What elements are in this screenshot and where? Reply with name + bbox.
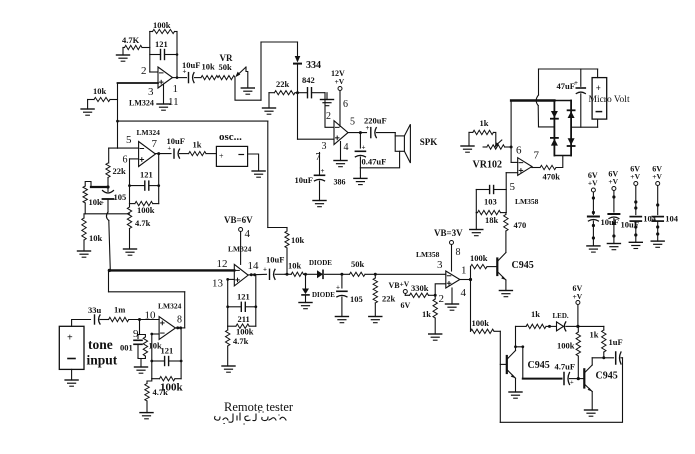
op-amp U1C LM324 [234, 264, 248, 286]
label 100k stage3 [236, 327, 254, 337]
wire pin5 column down [108, 148, 110, 163]
power branch4 6V 104 [651, 165, 679, 248]
label OSC [219, 131, 242, 143]
wire pin2 input [150, 71, 158, 73]
svg-text:LM324: LM324 [137, 128, 161, 137]
label 330k [411, 283, 429, 293]
wire s2 fb right vertical [157, 152, 160, 204]
label 1m [114, 305, 125, 315]
wire node stage1 plus vertical [116, 83, 119, 148]
wire chain b [304, 273, 318, 276]
svg-text:121: 121 [155, 39, 168, 49]
wire pin5 row [109, 147, 139, 149]
label 10uF stage2 [167, 136, 185, 146]
wire nodeB row [85, 213, 129, 215]
capacitor 121 stage1 [150, 50, 177, 60]
label pin13 [212, 278, 224, 290]
label pin8 [177, 315, 182, 326]
label LM358 a [515, 197, 539, 206]
wire flasher loop [500, 358, 622, 423]
capacitor 103 [476, 186, 506, 194]
label 121 stage1 [155, 39, 168, 49]
op-amp U2 386 [334, 121, 348, 145]
diode bridge D4 [568, 138, 575, 146]
capacitor 105 chain [336, 274, 347, 316]
power branch3 6V 104 [629, 165, 656, 249]
capacitor 121 stage3 [226, 302, 257, 311]
resistor 22k 386-input [269, 91, 298, 95]
diode bridge D1 [551, 111, 558, 119]
resistor 470 [504, 213, 508, 231]
wire 105 down with hop [106, 199, 110, 270]
svg-text:1m: 1m [114, 305, 125, 315]
label 12V [331, 69, 345, 78]
svg-text:+: + [336, 284, 340, 292]
svg-text:osc...: osc... [219, 131, 242, 143]
wire s3 fb right vertical [255, 275, 257, 326]
label 47uF [557, 81, 575, 91]
label 10k stage1 ref [93, 86, 107, 96]
wire loop bottom [268, 227, 287, 229]
label pin6 lm358a [516, 145, 522, 157]
label pin10 [145, 310, 157, 322]
svg-text:LM324: LM324 [228, 245, 252, 254]
ground 4.7k u1d [140, 413, 153, 419]
resistor 4.7K stage1 [123, 45, 150, 49]
svg-text:10k: 10k [89, 233, 103, 243]
capacitor 1uF [616, 352, 623, 364]
resistor 100k delay [471, 329, 501, 333]
ground Q1 emitter [499, 291, 512, 297]
wire pin9 row [150, 333, 159, 336]
svg-text:7: 7 [534, 150, 540, 162]
label 1k flasher [590, 330, 599, 340]
wire 470k to bridge [556, 156, 563, 168]
power node 12V [338, 87, 342, 91]
resistor 4.7k stage3 [226, 326, 230, 366]
svg-text:input: input [87, 353, 118, 368]
wire meter top [597, 69, 599, 78]
svg-text:3: 3 [437, 259, 443, 271]
label 100k stage1 [153, 20, 171, 30]
wire 1k gnd lead [468, 132, 470, 146]
diode bridge D3 [551, 138, 558, 146]
svg-text:4: 4 [245, 228, 251, 240]
label LM324 U1A [129, 99, 154, 108]
wire pin6 row [130, 158, 139, 160]
svg-text:VB: VB [389, 281, 401, 290]
svg-text:+: + [100, 199, 104, 207]
label LM324 U1B [137, 128, 161, 137]
label 1uF [609, 337, 623, 347]
wire tone box top [72, 320, 91, 327]
ground pin4 lm358b [446, 288, 459, 310]
svg-text:+V: +V [400, 280, 410, 289]
label 842 [302, 75, 315, 85]
svg-text:4.7k: 4.7k [233, 336, 249, 346]
svg-text:4.7K: 4.7K [122, 35, 140, 45]
svg-text:10k: 10k [93, 86, 107, 96]
ground 10k ref [81, 109, 94, 115]
svg-text:105: 105 [350, 294, 363, 304]
wire pin3 input [118, 82, 159, 84]
label pin7 s2 [152, 138, 158, 150]
label pin6 s2 [123, 155, 128, 166]
node A junction [106, 185, 109, 188]
svg-text:22k: 22k [276, 79, 290, 89]
svg-text:4: 4 [461, 287, 467, 299]
resistor 10k stage1 gnd-ref [88, 97, 118, 101]
svg-text:4.7k: 4.7k [135, 218, 151, 228]
ground pin7 cap [313, 201, 326, 207]
svg-text:22k: 22k [382, 294, 396, 304]
label pin7 lm358a [534, 150, 540, 162]
svg-text:3: 3 [148, 86, 154, 98]
svg-text:50k: 50k [219, 62, 233, 72]
transistor C945 Q3 [584, 365, 592, 410]
wire u1d column up [108, 269, 111, 292]
label 100k stage2 [137, 205, 155, 215]
label 0.47uF [362, 157, 387, 167]
wire lm358b out [460, 278, 472, 281]
resistor 330k [410, 293, 429, 297]
wire vb to 330k [405, 294, 409, 296]
svg-text:+: + [321, 167, 325, 175]
resistor 22k stage2 [106, 163, 110, 187]
label pin2 386 [326, 111, 331, 122]
svg-text:+V: +V [573, 292, 583, 301]
label input [87, 353, 118, 368]
svg-text:SPK: SPK [420, 137, 438, 147]
label 10uF stage1 [182, 60, 200, 70]
resistor 4.7k stage2 [127, 204, 131, 249]
svg-text:VB=6V: VB=6V [224, 215, 253, 225]
wire 6v to led node [576, 305, 579, 329]
label 50k [219, 62, 233, 72]
label 121 stage3 [237, 292, 250, 302]
label pin3 lm358b [437, 259, 443, 271]
svg-text:9: 9 [133, 328, 139, 340]
wire chain c [325, 273, 350, 276]
wire chain d [365, 273, 446, 276]
label 1k meter [480, 118, 489, 128]
wire s2 fb left vertical [129, 159, 131, 204]
svg-text:121: 121 [237, 292, 250, 302]
wire right mid rail [571, 126, 598, 128]
wire thick to bridge [511, 99, 554, 101]
label pin1 lm358b [461, 265, 467, 277]
power branch2 6V 10uF [607, 170, 639, 250]
svg-text:6: 6 [343, 99, 348, 110]
power node VB 6V [403, 290, 407, 294]
resistor 100k stage2 [130, 201, 159, 205]
svg-text:tone: tone [88, 337, 113, 352]
wire VR tap down [235, 78, 261, 100]
label 121 stage2 [140, 170, 153, 180]
label 470 [514, 220, 527, 230]
label SPK [420, 137, 438, 147]
label Micro Volt [589, 95, 630, 105]
svg-text:12: 12 [217, 258, 228, 270]
svg-text:211: 211 [238, 314, 250, 324]
wire stage1 feedback box right vertical [176, 32, 179, 79]
label 334 [306, 60, 321, 71]
label 100k delay [472, 318, 490, 328]
svg-text:10uF: 10uF [182, 60, 200, 70]
label 100k u1d [160, 382, 184, 394]
wire u1d out riser [184, 292, 186, 328]
wire 12V to 386 [339, 91, 341, 127]
speaker SPK [395, 124, 410, 163]
label 10k stage1 out [202, 62, 216, 72]
svg-text:4: 4 [344, 142, 349, 153]
capacitor 105 stage2 [100, 187, 114, 207]
capacitor 121 u1d [150, 357, 182, 366]
label C945 Q3 [596, 371, 618, 382]
ground 0.47uF [354, 178, 367, 184]
svg-text:8: 8 [456, 247, 461, 258]
svg-text:5: 5 [510, 181, 516, 193]
bridge rectangle [554, 101, 571, 156]
svg-text:2: 2 [326, 111, 331, 122]
capacitor 4.7uF [523, 373, 583, 387]
label 10k s2b [89, 233, 103, 243]
label 22k chain [382, 294, 396, 304]
potentiometer VR102 [483, 145, 511, 149]
ground 105 chain [335, 317, 348, 323]
svg-text:1: 1 [461, 265, 467, 277]
svg-text:LM324: LM324 [158, 302, 182, 311]
wire s3 output [248, 273, 266, 276]
resistor 1k stage2 [189, 152, 217, 156]
ground 1k meter [461, 146, 474, 152]
svg-text:1k: 1k [531, 309, 540, 319]
label 121 u1d [161, 346, 174, 356]
svg-text:103: 103 [484, 197, 497, 207]
wire to pin2 lm358b [435, 284, 446, 296]
svg-text:LM324: LM324 [129, 99, 154, 108]
ground 22k 386 [263, 108, 276, 114]
wire out up branch [470, 267, 472, 280]
diode DIODE shunt [302, 289, 309, 295]
ground after 842 [321, 93, 334, 106]
label pin6 386 [343, 99, 348, 110]
label pin4 lm358b [461, 287, 467, 299]
wire jump from top [536, 69, 538, 127]
wire pin6 riser [510, 101, 513, 163]
label 22k 386 [276, 79, 290, 89]
resistor 100k stage1 feedback [150, 29, 177, 33]
wire s3 fb left vertical [227, 279, 229, 326]
label tone [88, 337, 113, 352]
svg-text:3: 3 [322, 141, 327, 152]
label pin2 lm358b [439, 293, 445, 305]
svg-text:1k: 1k [480, 118, 489, 128]
label pin14 [248, 260, 260, 272]
resistor 100k flasher [576, 326, 580, 380]
resistor 4.7k u1d [145, 379, 152, 413]
label 386 [334, 178, 346, 187]
svg-text:33u: 33u [88, 305, 102, 315]
svg-text:330k: 330k [411, 283, 429, 293]
power node 6V flasher [576, 301, 580, 305]
transistor C945 Q1 [497, 231, 506, 291]
svg-text:6: 6 [516, 145, 522, 157]
label pin4 386 [344, 142, 349, 153]
capacitor 220uF [366, 124, 396, 138]
ground 103-18k [470, 230, 483, 236]
op-amp U1A LM324 [158, 67, 173, 88]
svg-text:+V: +V [630, 172, 640, 181]
label 1k lm358b [422, 309, 431, 319]
label pin11 [168, 96, 179, 108]
label pin9 [133, 328, 139, 340]
wire U1A output [173, 77, 187, 79]
wire 10k ref to ground [87, 100, 89, 110]
resistor 1k lm358b [433, 295, 437, 334]
label pin8 lm358b [456, 247, 461, 258]
ground diode shunt [299, 303, 312, 309]
wire pin13 row [226, 278, 234, 281]
wire chain a [285, 273, 291, 276]
svg-text:C945: C945 [512, 260, 534, 271]
capacitor 10uF stage1 out [183, 68, 195, 83]
capacitor 121 stage2 [128, 181, 160, 190]
svg-text:22k: 22k [113, 166, 127, 176]
svg-text:470k: 470k [543, 172, 561, 182]
svg-text:+: + [263, 266, 267, 274]
label 22k stage2 [113, 166, 127, 176]
diode DIODE series [317, 270, 323, 278]
label 1k stage2 [193, 140, 202, 150]
wire 22k to ground [268, 93, 270, 108]
label 4.7uF [555, 362, 576, 372]
label +V 386 [335, 77, 345, 86]
label 10uF stage3 [266, 255, 284, 265]
svg-text:104: 104 [643, 214, 657, 224]
resistor 100k base1 [471, 264, 498, 268]
svg-text:1k: 1k [193, 140, 202, 150]
svg-text:+: + [596, 83, 601, 93]
svg-text:10k: 10k [202, 62, 216, 72]
wire meter bottom [597, 119, 599, 127]
svg-text:DIODE: DIODE [312, 291, 335, 299]
resistor 10k tone [143, 337, 147, 356]
svg-text:+V: +V [652, 172, 662, 181]
svg-text:842: 842 [302, 75, 315, 85]
svg-text:100k: 100k [153, 20, 171, 30]
svg-text:220uF: 220uF [364, 116, 387, 126]
wire pin6 row [511, 161, 518, 163]
label 1k led [531, 309, 540, 319]
svg-text:+V: +V [335, 77, 345, 86]
svg-text:1: 1 [173, 83, 179, 95]
op-amp U3A LM358 [518, 158, 532, 176]
ground VR wiper [241, 88, 254, 94]
label 10uF pin7 [295, 175, 313, 185]
wire q2 coupling branch [516, 345, 525, 378]
svg-text:100k: 100k [236, 327, 254, 337]
svg-text:47uF: 47uF [557, 81, 575, 91]
svg-text:100k: 100k [557, 341, 575, 351]
label VB=6V stage3 [224, 215, 253, 225]
wire thick stage3 input [110, 269, 234, 271]
wire diode shunt to gnd [305, 295, 307, 303]
label pin2 [141, 65, 147, 77]
wire shunt join [138, 356, 145, 367]
wire q3 collector [592, 358, 613, 365]
wire stage1 feedback box left vertical [149, 32, 151, 73]
label VR102 [473, 160, 502, 171]
wire 1m to opamp [129, 318, 159, 321]
wire osc out to ground [248, 154, 259, 171]
svg-text:10k: 10k [291, 235, 305, 245]
potentiometer VR 50k [218, 76, 235, 80]
ground pin4 386 [334, 142, 347, 167]
wire u1d out [176, 326, 185, 329]
svg-text:386: 386 [334, 178, 346, 187]
wire VB to stage3 [240, 232, 242, 265]
label LM324 U1D [158, 302, 182, 311]
label pin5 386 [350, 117, 355, 128]
label VR [220, 53, 233, 63]
svg-text:6V: 6V [401, 301, 411, 310]
wire 842 to pin2 386 [325, 93, 334, 128]
svg-text:+V: +V [588, 179, 598, 188]
tone input box [59, 326, 84, 369]
capacitor 10uF stage3 out [263, 266, 285, 280]
label LM324 stage3 [228, 245, 252, 254]
ground 4.7k stage3 [222, 366, 235, 372]
resistor 100k u1d [152, 377, 181, 381]
svg-text:VB=3V: VB=3V [434, 228, 463, 238]
resistor 18k [476, 210, 506, 214]
label 4.7k u1d [153, 387, 169, 397]
label C945 Q1 [512, 260, 534, 271]
label 10k chain [288, 261, 302, 271]
wire bridge left mid [539, 126, 555, 128]
wire q2 base column [500, 331, 507, 422]
ground 10k s2b [78, 251, 91, 257]
wire pin5 node column [505, 173, 507, 213]
label 4.7k stage3 [233, 336, 249, 346]
svg-text:6: 6 [123, 155, 128, 166]
svg-text:105: 105 [114, 192, 127, 202]
svg-text:121: 121 [161, 346, 174, 356]
svg-text:104: 104 [665, 214, 679, 224]
capacitor 842 [298, 88, 326, 98]
resistor 10k s2b [82, 214, 86, 251]
wire step to 10k [85, 182, 91, 188]
wire 103-18k left vert [475, 190, 477, 230]
wire 330k junction [429, 294, 437, 297]
wire diode shunt drop [305, 274, 307, 288]
power branch1 6V 10uF [587, 171, 619, 252]
svg-text:100k: 100k [472, 318, 490, 328]
resistor 10k vert mid [285, 228, 289, 275]
label 470k [543, 172, 561, 182]
meter Micro Volt box [592, 78, 607, 120]
label 105 stage2 [114, 192, 127, 202]
resistor 100k stage3 [228, 324, 256, 328]
label C945 Q2 [528, 360, 550, 371]
diode bridge D2 [568, 110, 575, 118]
osc box [216, 146, 247, 166]
svg-text:2: 2 [439, 293, 445, 305]
caption Remote tester [224, 400, 294, 414]
svg-text:Micro Volt: Micro Volt [589, 95, 630, 105]
svg-text:10: 10 [145, 310, 157, 322]
